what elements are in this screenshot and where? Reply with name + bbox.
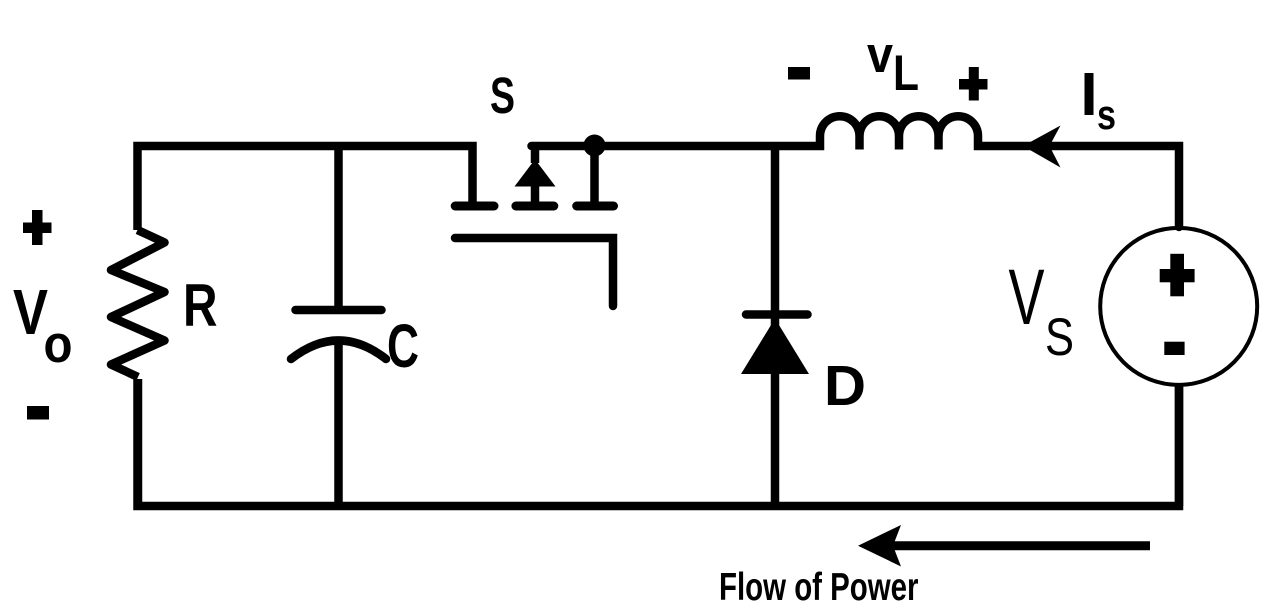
resistor R bbox=[111, 230, 165, 377]
label - (output) bbox=[27, 406, 49, 420]
label + (inductor) bbox=[959, 67, 988, 101]
svg-text:s: s bbox=[1097, 91, 1116, 138]
transistor S: middle channel bar bbox=[516, 202, 554, 211]
wire: capacitor top stub bbox=[334, 142, 343, 310]
arrowhead: flow of power bbox=[858, 525, 901, 567]
svg-text:D: D bbox=[824, 354, 866, 418]
svg-text:C: C bbox=[387, 312, 419, 381]
svg-text:S: S bbox=[1045, 308, 1074, 367]
transistor S: gate bbox=[455, 238, 613, 306]
wire: top rail right with inductor humps, corner to source bbox=[532, 116, 1180, 227]
diode D cathode bar bbox=[746, 310, 808, 319]
svg-text:v: v bbox=[867, 26, 894, 83]
capacitor C curved plate bbox=[291, 341, 386, 360]
label - (inductor) bbox=[788, 67, 810, 80]
diode D triangle bbox=[741, 319, 809, 375]
label - (inside source) bbox=[1164, 342, 1184, 355]
transistor S: left channel bar bbox=[455, 202, 494, 211]
label I (source current) bbox=[1085, 73, 1094, 115]
wire: source bottom stub bbox=[1175, 385, 1184, 506]
transistor S: body arrow bbox=[517, 161, 554, 186]
label + (output) bbox=[23, 210, 52, 245]
transistor S: body elbow wire bbox=[531, 146, 540, 163]
svg-text:V: V bbox=[1009, 252, 1045, 341]
capacitor C top plate bbox=[296, 306, 382, 315]
wire: diode branch vertical bbox=[771, 146, 780, 506]
label + (inside source) bbox=[1160, 254, 1195, 296]
arrow: flow of power bbox=[889, 541, 1150, 550]
svg-text:o: o bbox=[44, 315, 73, 374]
svg-text:L: L bbox=[893, 45, 919, 101]
wire: resistor bottom + bottom rail + right vertical below source bbox=[138, 379, 1180, 506]
svg-text:R: R bbox=[183, 272, 218, 339]
svg-text:S: S bbox=[490, 67, 515, 124]
transistor S: right channel bar bbox=[577, 202, 614, 211]
wire: left vertical top + top rail left + MOSFET drain stub bbox=[138, 146, 473, 230]
voltage source VS circle bbox=[1100, 228, 1257, 385]
arrowhead Is (current direction) bbox=[1023, 126, 1061, 168]
node: junction dot at switch/drain bbox=[584, 135, 606, 157]
transistor S: source stub bbox=[590, 146, 599, 203]
wire: capacitor bottom stub bbox=[334, 340, 343, 506]
svg-text:Flow of Power: Flow of Power bbox=[719, 566, 919, 609]
transistor S: body stub bbox=[531, 184, 540, 203]
